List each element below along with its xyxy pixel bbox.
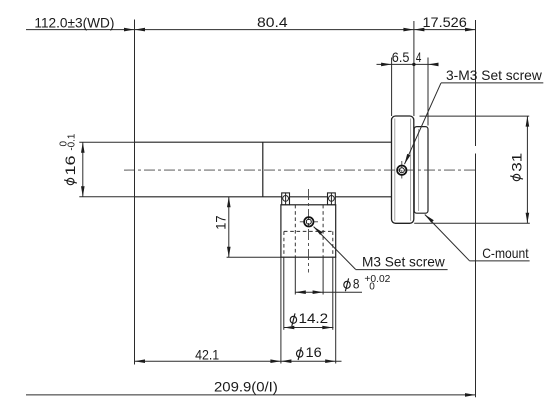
svg-text:8: 8: [353, 276, 360, 292]
svg-text:16: 16: [306, 344, 322, 360]
svg-text:M3 Set screw: M3 Set screw: [362, 253, 446, 269]
svg-text:-0.1: -0.1: [67, 133, 78, 150]
svg-text:209.9(0/I): 209.9(0/I): [214, 379, 278, 395]
svg-text:42.1: 42.1: [195, 347, 219, 363]
svg-text:17: 17: [212, 215, 228, 229]
svg-text:14.2: 14.2: [299, 310, 329, 326]
svg-text:31: 31: [508, 153, 524, 172]
svg-text:17.526: 17.526: [423, 14, 468, 30]
svg-text:80.4: 80.4: [257, 14, 288, 30]
svg-text:112.0±3(WD): 112.0±3(WD): [34, 14, 114, 30]
svg-text:16: 16: [62, 155, 78, 175]
svg-text:4: 4: [416, 49, 422, 65]
svg-text:C-mount: C-mount: [482, 245, 528, 261]
svg-text:6.5: 6.5: [392, 49, 410, 65]
svg-text:0: 0: [369, 282, 375, 293]
svg-text:3-M3 Set screw: 3-M3 Set screw: [446, 67, 543, 83]
